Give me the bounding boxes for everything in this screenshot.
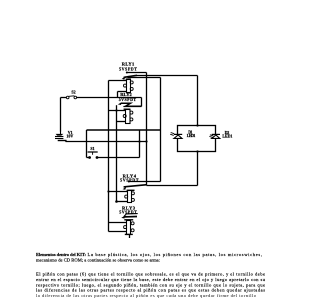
svg-text:Elementos dentro del KIT:: Elementos dentro del KIT: xyxy=(36,252,86,257)
relay RLY1 arm xyxy=(122,75,137,79)
wire long vertical V1 at x=109 xyxy=(108,81,110,232)
wire RLY1 coil bottom left xyxy=(118,91,127,93)
switch S2 xyxy=(66,89,76,98)
relay RLY4 coil xyxy=(125,190,135,202)
wire long vertical at x=146.9 xyxy=(146,73,148,186)
wire battery minus rail xyxy=(66,141,147,143)
relay RLY3 coil xyxy=(124,221,135,235)
wire S1 right lead xyxy=(97,157,140,159)
wire RLY4 coil top feed xyxy=(109,191,128,193)
svg-text:S2: S2 xyxy=(71,89,75,94)
LED D1 xyxy=(170,129,195,138)
wire RLY4 NC contact xyxy=(129,181,161,183)
svg-text:la diferencia de las otras par: la diferencia de las otras partes respec… xyxy=(36,293,257,298)
svg-text:10V: 10V xyxy=(66,133,73,138)
relay RLY2 label xyxy=(119,92,137,102)
wire S1 left lead xyxy=(87,157,90,159)
wire S1 riser xyxy=(139,130,141,158)
relay RLY3 label xyxy=(119,205,137,214)
svg-text:LED1: LED1 xyxy=(222,134,232,139)
wire RLY1 NC contact to V146.9 xyxy=(127,72,147,74)
switch S1 xyxy=(88,146,99,159)
svg-text:S1: S1 xyxy=(90,146,94,151)
relay RLY1 coil xyxy=(124,79,134,92)
wire RLY3 coil top feed xyxy=(109,222,127,224)
svg-text:5VSPDT: 5VSPDT xyxy=(119,97,137,102)
wire RLY2 feed right edge xyxy=(141,98,143,107)
svg-text:las diferencias de las otras p: las diferencias de las otras partes resp… xyxy=(36,288,265,293)
wire RLY1 lower contact to V160.6 xyxy=(127,77,160,79)
wire S2 to RLY1 coil xyxy=(76,97,141,99)
wire RLY3 coil bottom feed xyxy=(109,231,127,233)
wire RLY2 feed bottom edge xyxy=(124,106,142,108)
relay RLY1 label xyxy=(119,61,137,71)
wire vertical V2 at x=116.2 xyxy=(116,105,118,201)
relay RLY4 arm xyxy=(123,185,147,190)
relay RLY2 arm xyxy=(118,102,141,106)
battery V1 xyxy=(55,131,67,141)
svg-text:5VSPDT: 5VSPDT xyxy=(120,177,139,182)
wire vertical down to LED box top xyxy=(197,76,199,126)
wire RLY3 coil bottom stub xyxy=(129,235,131,238)
node junction dots xyxy=(107,72,198,203)
svg-text:LED1: LED1 xyxy=(187,133,196,138)
wire RLY2 coil top feed xyxy=(109,110,126,112)
LED D2 xyxy=(209,130,232,139)
wire LED box bottom drop xyxy=(197,152,199,186)
wire RLY4 coil bottom feed xyxy=(117,201,128,203)
relay RLY4 label xyxy=(120,173,139,182)
wire long vertical at x=160.6 xyxy=(160,78,162,182)
wire RLY1 arm to LED feed xyxy=(137,75,198,77)
svg-text:5VSPDT: 5VSPDT xyxy=(119,66,137,71)
svg-text:mecanismo de CD ROM; a continu: mecanismo de CD ROM; a continuación se o… xyxy=(36,257,160,262)
relay RLY3 arm xyxy=(121,214,137,235)
wire RLY2 coil bottom feed xyxy=(117,121,126,123)
wire battery plus to S2 xyxy=(61,97,67,99)
wire LED box xyxy=(178,126,216,152)
paragraph 1 line 1 xyxy=(36,252,262,258)
wire drop to S2 net xyxy=(117,92,119,98)
wire S1 left drop xyxy=(86,130,88,158)
wire left vertical to battery xyxy=(60,98,62,132)
wire RLY1 coil top feed xyxy=(109,80,127,82)
relay RLY2 coil xyxy=(123,109,133,123)
wire S1 upper rail xyxy=(87,129,161,131)
wire RLY4 arm to LED return xyxy=(147,185,198,187)
